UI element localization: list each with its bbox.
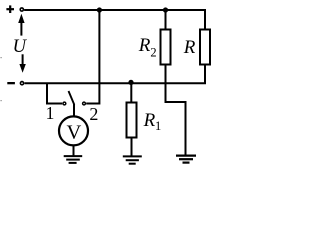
wire: long vertical from top wire to switch contact 2 — [86, 10, 99, 104]
wire: voltmeter to ground — [73, 145, 75, 155]
plus sign — [6, 5, 14, 13]
svg-text:V: V — [66, 121, 81, 143]
resistor R1 — [127, 83, 137, 156]
svg-text:U: U — [13, 37, 28, 57]
stray scan speck 2 — [1, 100, 2, 101]
svg-text:1: 1 — [46, 103, 55, 123]
svg-text:R: R — [138, 35, 151, 56]
resistor R — [200, 30, 210, 65]
svg-text:2: 2 — [150, 46, 156, 60]
svg-text:2: 2 — [89, 104, 98, 124]
negative terminal — [20, 82, 23, 85]
node: junction dot R1 top — [128, 80, 133, 85]
switch contact 1 — [63, 102, 66, 105]
bus wire (minus rail to R bottom) — [25, 66, 206, 84]
ground (under voltmeter) — [64, 156, 82, 163]
switch contact 2 — [83, 102, 86, 105]
wire: switch contact 1 feed from bus — [47, 83, 62, 103]
svg-text:1: 1 — [155, 119, 161, 133]
wire: R2 bottom to ground (crosses bus, jogs right) — [166, 65, 186, 156]
stray scan speck 1 — [1, 57, 2, 58]
svg-text:R: R — [143, 110, 156, 131]
voltmeter V1 — [59, 116, 88, 145]
ground (right, under R2 path) — [176, 156, 196, 163]
positive terminal — [20, 8, 23, 11]
down arrow (U reference) — [19, 54, 25, 73]
top wire — [24, 10, 205, 29]
up arrow (U reference) — [18, 14, 24, 36]
wire: switch pivot stem to voltmeter — [73, 104, 75, 117]
minus sign — [7, 82, 15, 84]
resistor R2 — [161, 9, 171, 65]
node: junction dot R2 top — [163, 7, 168, 12]
ground (under R1) — [123, 156, 142, 163]
switch blade — [69, 91, 75, 105]
svg-text:R: R — [183, 37, 196, 58]
node: junction dot top-left vertical — [97, 7, 102, 12]
